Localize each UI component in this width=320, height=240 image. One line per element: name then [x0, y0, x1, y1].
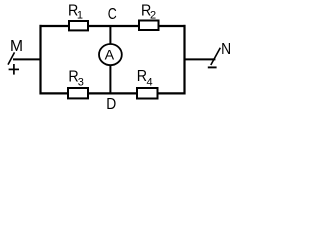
resistor R4 — [137, 68, 158, 98]
svg-text:M: M — [10, 38, 23, 55]
svg-text:2: 2 — [150, 10, 156, 22]
svg-text:4: 4 — [146, 76, 152, 88]
resistor R1 — [68, 2, 88, 30]
wire left vertical — [39, 25, 41, 95]
polarity + at M — [9, 64, 19, 75]
wire right vertical — [183, 25, 185, 95]
wire top rail A-C-B — [40, 25, 186, 27]
svg-text:1: 1 — [77, 10, 83, 22]
resistor R2 — [139, 2, 159, 30]
ammeter A — [99, 44, 122, 65]
polarity - at N — [208, 66, 217, 68]
wire M lead — [13, 58, 41, 60]
svg-text:N: N — [221, 41, 231, 58]
wire galvanometer branch C-D — [109, 26, 111, 93]
wire bottom rail — [40, 92, 186, 94]
terminal M diagonal — [8, 52, 15, 64]
svg-text:3: 3 — [78, 77, 84, 89]
svg-text:A: A — [105, 47, 115, 63]
terminal N diagonal — [211, 48, 221, 65]
resistor R3 — [68, 69, 88, 99]
svg-text:D: D — [106, 96, 116, 113]
svg-text:C: C — [108, 6, 117, 23]
wire N lead — [184, 58, 215, 60]
